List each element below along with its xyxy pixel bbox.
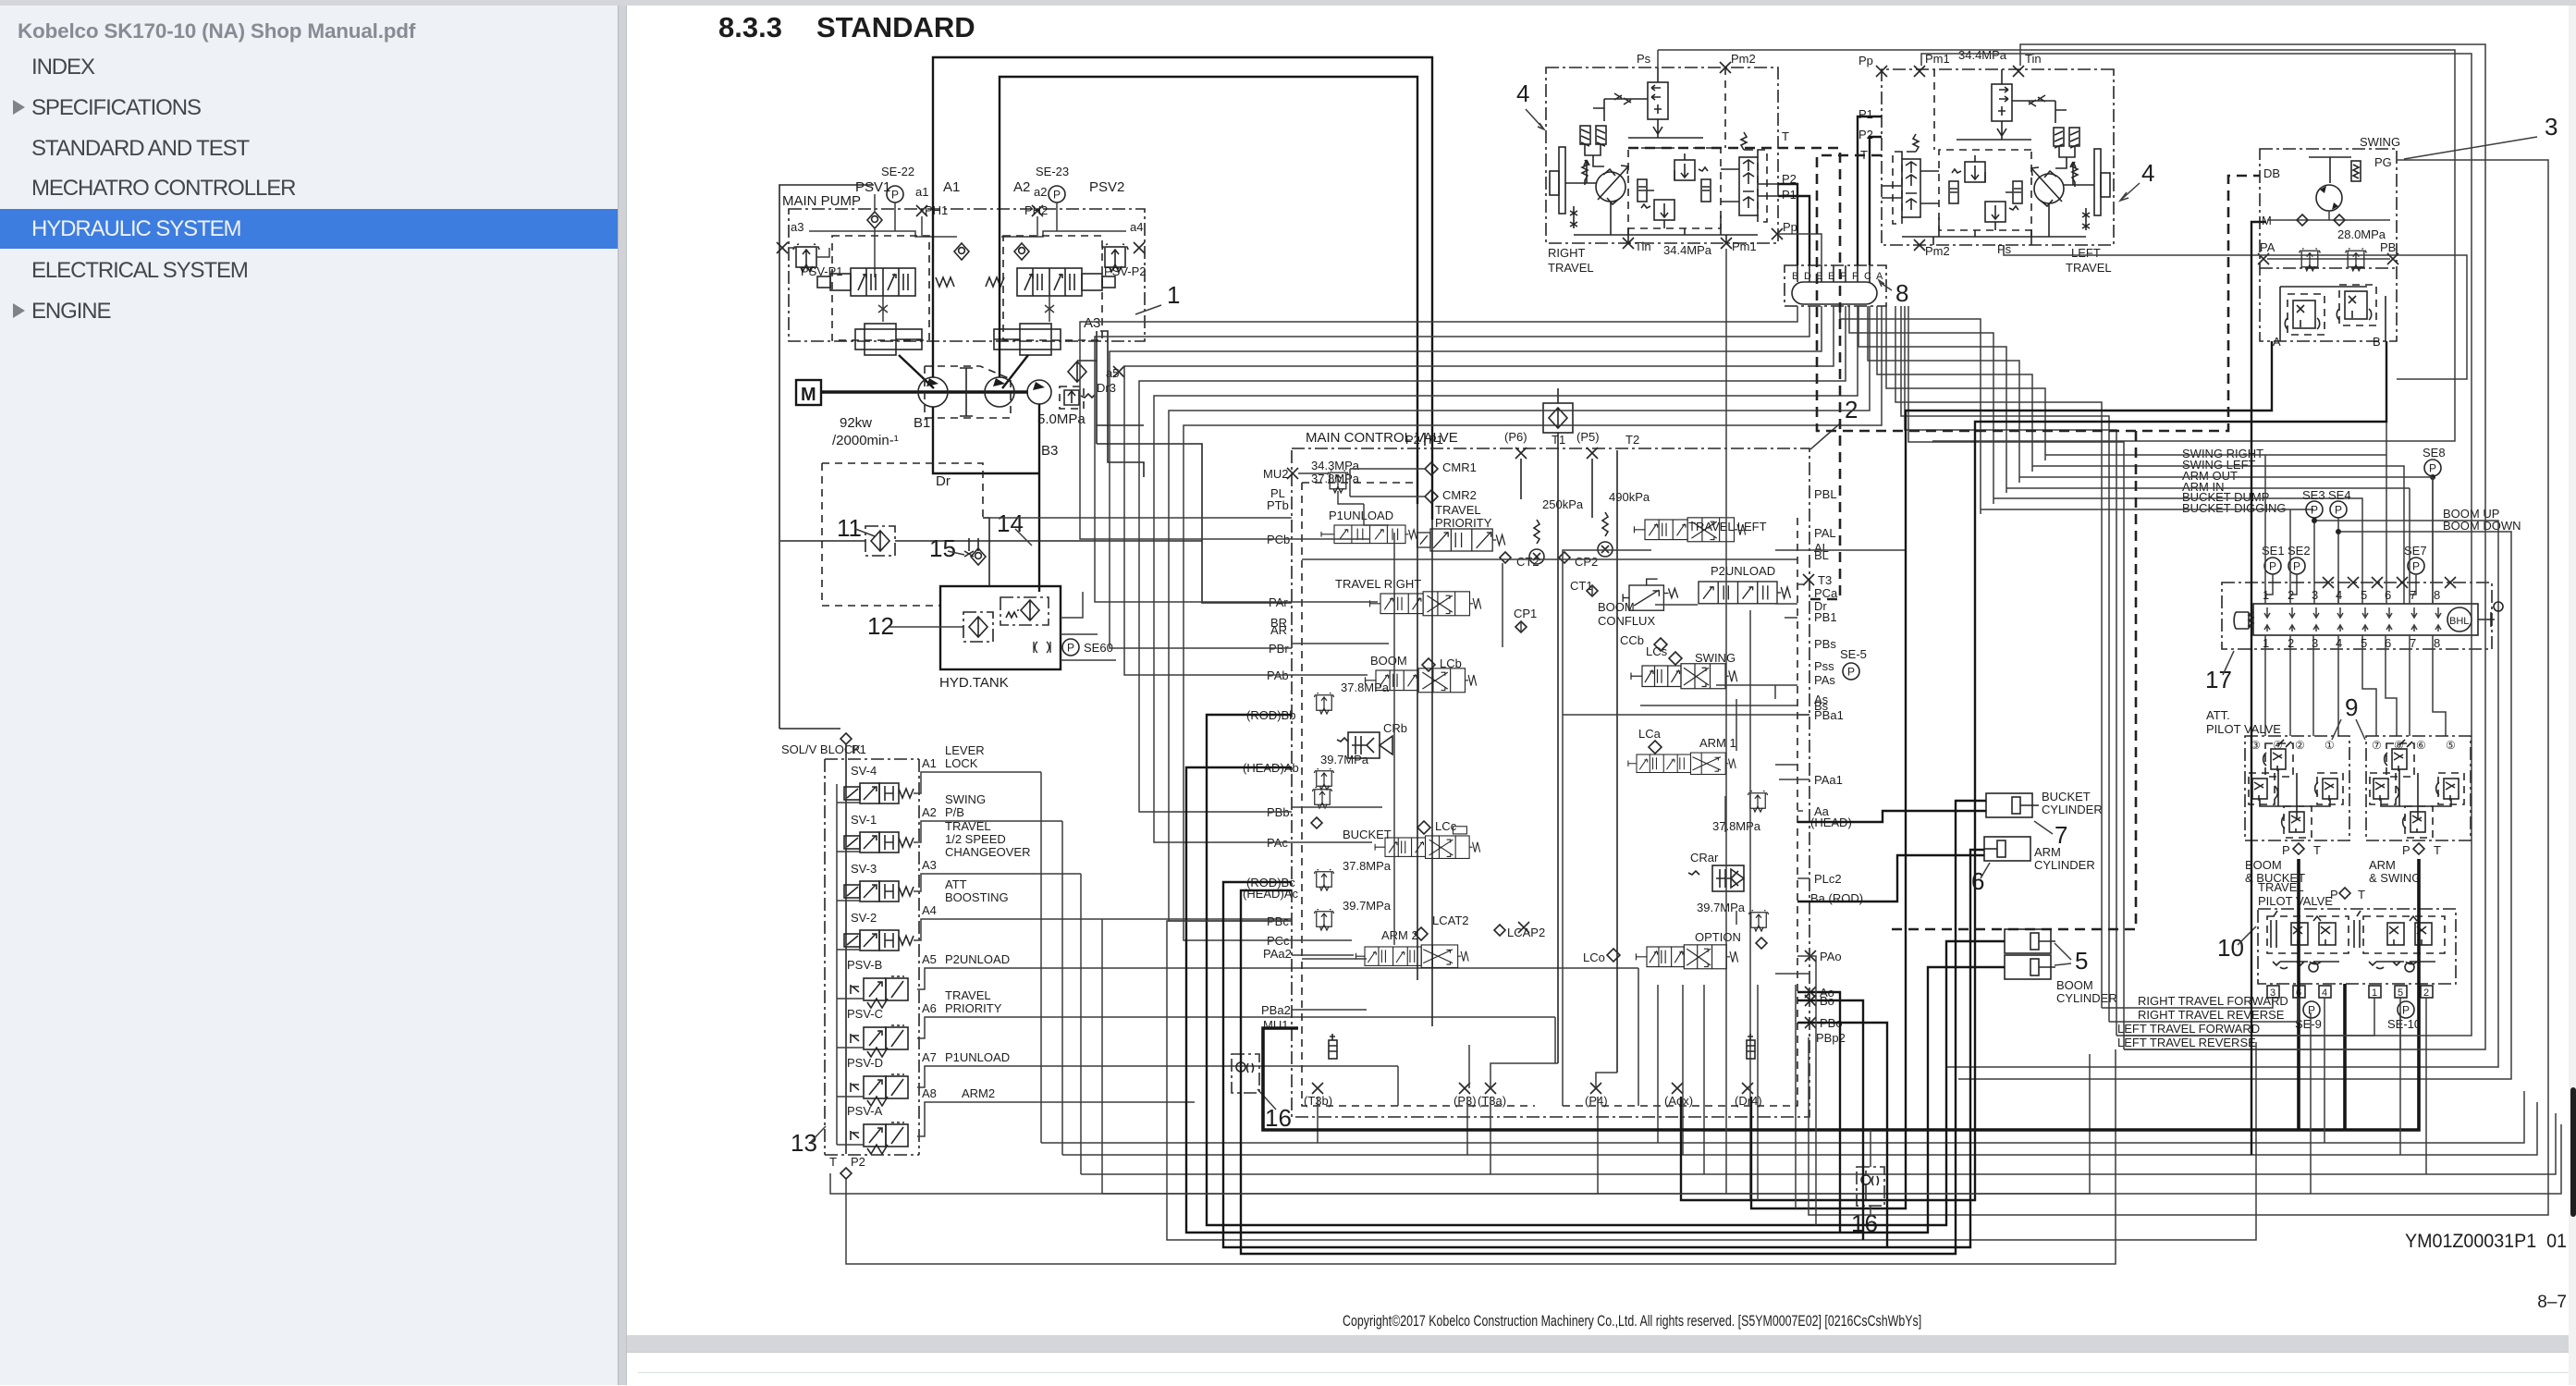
svg-text:PTb: PTb <box>1267 498 1289 512</box>
svg-text:ATT: ATT <box>945 877 967 891</box>
svg-text:4: 4 <box>2141 159 2154 187</box>
svg-text:LCAT2: LCAT2 <box>1432 914 1469 927</box>
svg-text:2: 2 <box>2423 987 2429 999</box>
svg-text:ARM 2: ARM 2 <box>1381 928 1418 942</box>
svg-text:PBs: PBs <box>1814 637 1836 651</box>
svg-text:LCAP2: LCAP2 <box>1507 926 1545 939</box>
svg-text:P1: P1 <box>1858 107 1873 121</box>
dashed T net left travel <box>1817 155 2260 929</box>
svg-text:RIGHT TRAVEL FORWARD: RIGHT TRAVEL FORWARD <box>2138 994 2288 1008</box>
svg-text:SV-1: SV-1 <box>851 813 877 827</box>
left travel motor unit (mirrored) <box>1882 69 2114 245</box>
svg-text:SV-2: SV-2 <box>851 911 877 925</box>
svg-text:SE-22: SE-22 <box>881 165 914 178</box>
svg-text:SE-23: SE-23 <box>1036 165 1069 178</box>
nest wire row 10 <box>1908 306 2124 1049</box>
MCV bottom small checks <box>1329 1034 1337 1059</box>
svg-text:PSV2: PSV2 <box>1089 179 1124 195</box>
svg-text:CYLINDER: CYLINDER <box>2034 858 2095 872</box>
check valves center <box>954 243 969 260</box>
svg-text:TRAVEL: TRAVEL <box>2258 880 2304 894</box>
svg-text:PH1: PH1 <box>925 203 948 217</box>
svg-text:T: T <box>829 1155 837 1169</box>
svg-text:28.0MPa: 28.0MPa <box>2337 227 2386 241</box>
svg-text:3: 3 <box>2545 113 2558 141</box>
swing dash-dot boundary <box>2260 149 2397 341</box>
main page <box>627 6 2576 1335</box>
tank suction to MCV <box>983 517 1292 519</box>
svg-text:4: 4 <box>2322 987 2327 999</box>
svg-text:490kPa: 490kPa <box>1609 490 1650 504</box>
svg-text:PAs: PAs <box>1814 673 1835 687</box>
svg-text:A1: A1 <box>922 756 937 770</box>
svg-text:D: D <box>1804 271 1811 282</box>
svg-text:37.8MPa: 37.8MPa <box>1341 681 1390 694</box>
solv dash-dot boundary <box>825 759 919 1155</box>
PG long wire <box>1809 160 2548 1215</box>
svg-text:PRIORITY: PRIORITY <box>945 1001 1002 1015</box>
main pump dash-dot boundary <box>789 209 1145 341</box>
shuttle spring left <box>2234 612 2253 629</box>
swing lower makeup valves <box>2280 285 2386 341</box>
svg-text:P: P <box>2330 888 2338 902</box>
svg-text:PAa1: PAa1 <box>1814 773 1843 787</box>
shuttle dash-dot boundary <box>2222 583 2492 649</box>
svg-text:CT1: CT1 <box>1570 579 1593 593</box>
svg-text:STANDARD: STANDARD <box>816 11 975 43</box>
tank drain bus <box>1097 331 1144 477</box>
svg-text:6: 6 <box>2385 636 2391 650</box>
svg-text:PB1: PB1 <box>1814 610 1837 624</box>
svg-text:PBL: PBL <box>1814 487 1837 501</box>
svg-text:1: 1 <box>1167 281 1180 309</box>
svg-text:8–7: 8–7 <box>2537 1293 2567 1312</box>
fan wire PBr <box>1110 306 1822 648</box>
svg-text:15: 15 <box>929 534 956 562</box>
Pm1 long drop <box>1725 249 1727 1194</box>
svg-text:P: P <box>2402 843 2410 857</box>
check CMR1 <box>1425 462 1438 475</box>
swing M long line <box>2251 222 2266 1155</box>
svg-text:P2UNLOAD: P2UNLOAD <box>945 952 1010 966</box>
svg-text:4: 4 <box>1516 80 1529 107</box>
svg-text:SWING: SWING <box>2360 135 2400 149</box>
port Ao link <box>1797 992 1840 1233</box>
MCV inner dash boundary right <box>1563 518 1797 1106</box>
svg-text:34.3MPa: 34.3MPa <box>1311 459 1360 472</box>
svg-text:MU2: MU2 <box>1263 467 1288 481</box>
svg-text:SOL/V BLOCK: SOL/V BLOCK <box>781 742 861 756</box>
bottom row Aox swing B <box>1681 341 2386 1200</box>
swing M line checks <box>2267 211 2390 220</box>
drop row5 <box>1757 985 1759 1200</box>
travel left P1 riser <box>1858 117 1882 265</box>
svg-text:4: 4 <box>2336 636 2342 650</box>
svg-text:B1: B1 <box>914 415 930 431</box>
svg-text:M: M <box>801 385 816 405</box>
svg-text:5: 5 <box>2361 636 2367 650</box>
fan wire PAb <box>1124 306 1834 675</box>
swing handle <box>2309 157 2361 183</box>
bottom row P4 <box>1102 919 2561 1194</box>
att pilot valve arm&swing <box>2366 736 2471 840</box>
P1 drop wire <box>845 744 847 1154</box>
solv T drain long wire <box>830 1054 2090 1194</box>
svg-text:6: 6 <box>2385 588 2391 602</box>
pilot label wires <box>1981 455 2433 604</box>
svg-text:PAL: PAL <box>1814 526 1836 540</box>
svg-text:5: 5 <box>2398 987 2403 999</box>
svg-text:39.7MPa: 39.7MPa <box>1343 899 1392 913</box>
inlet filter box <box>1543 403 1573 433</box>
svg-text:Pm1: Pm1 <box>1732 239 1757 253</box>
pilot P thick riser boom bucket <box>2297 859 2300 1130</box>
svg-text:T: T <box>1782 129 1789 143</box>
drop row2 <box>1682 985 1684 1155</box>
svg-text:250kPa: 250kPa <box>1542 497 1584 511</box>
svg-text:B3: B3 <box>1041 443 1058 459</box>
left travel forward wire <box>2116 998 2374 1036</box>
svg-text:LEVER: LEVER <box>945 743 985 757</box>
svg-text:5: 5 <box>2361 588 2367 602</box>
svg-text:5: 5 <box>2075 947 2088 975</box>
svg-text:a4: a4 <box>1130 220 1143 234</box>
dashed T net right travel <box>1628 148 1840 599</box>
svg-text:T3: T3 <box>1818 573 1832 587</box>
svg-text:(P6): (P6) <box>1504 430 1527 444</box>
travel top line Ps <box>1658 50 2455 441</box>
svg-text:AR: AR <box>1270 623 1287 637</box>
svg-text:ARM2: ARM2 <box>962 1086 995 1100</box>
svg-text:TRAVEL: TRAVEL <box>2066 261 2112 275</box>
svg-text:A6: A6 <box>922 1001 937 1015</box>
bucket cylinder <box>1986 793 2039 817</box>
svg-text:12: 12 <box>867 612 894 640</box>
bucket pilot row <box>1167 921 2256 1240</box>
svg-text:LEFT: LEFT <box>2071 246 2101 260</box>
fan wire PBc <box>1169 306 1870 921</box>
item 16 right check <box>1857 1167 1884 1206</box>
boom head thick line <box>1186 767 2005 1233</box>
svg-text:PSV-A: PSV-A <box>847 1104 883 1118</box>
suction line into MCV <box>983 518 989 586</box>
svg-text:Pm2: Pm2 <box>1731 52 1756 66</box>
swing motor <box>2316 185 2342 211</box>
svg-text:P1: P1 <box>1429 433 1443 447</box>
travel right P1 riser <box>1778 196 1809 265</box>
drain thick line B3 <box>1038 404 1040 592</box>
svg-text:37.8MPa: 37.8MPa <box>1343 859 1392 873</box>
left travel Pm1 top run <box>1921 54 2472 1036</box>
svg-text:3: 3 <box>2312 636 2318 650</box>
travel pilot port boxes <box>2267 986 2433 998</box>
pilot supply wire <box>779 728 840 730</box>
right travel motor unit <box>1546 67 1778 243</box>
svg-text:17: 17 <box>2205 666 2232 693</box>
svg-text:A2: A2 <box>1013 179 1030 195</box>
svg-text:TRAVEL RIGHT: TRAVEL RIGHT <box>1335 577 1421 591</box>
svg-text:PSV1: PSV1 <box>855 179 890 195</box>
servo link diagonal left <box>899 355 934 388</box>
main pump outer frame <box>779 185 874 729</box>
svg-text:(HEAD)Ac: (HEAD)Ac <box>1243 887 1298 901</box>
SE60 sensor <box>1034 642 1050 653</box>
motor box M <box>796 380 821 405</box>
connector block 8 <box>1785 265 1886 306</box>
svg-text:④: ④ <box>2273 739 2283 752</box>
MCV trunk stubs right <box>1736 550 1905 1023</box>
hyd tank box <box>940 586 1061 669</box>
svg-text:DB: DB <box>2263 166 2280 180</box>
swing relief pair <box>2267 258 2390 260</box>
svg-text:A4: A4 <box>922 903 937 917</box>
svg-text:Dr: Dr <box>936 473 951 489</box>
nest row 4 <box>1868 306 2019 483</box>
svg-text:PG: PG <box>2374 155 2392 169</box>
svg-text:PSV-D: PSV-D <box>847 1056 883 1070</box>
svg-text:⑥: ⑥ <box>2416 739 2426 752</box>
svg-text:Pss: Pss <box>1814 659 1834 673</box>
solv internal feed bus <box>837 784 864 1145</box>
svg-text:PSV-B: PSV-B <box>847 958 882 972</box>
svg-text:a2: a2 <box>1034 185 1047 199</box>
att pilot valve boom&bucket <box>2245 736 2349 840</box>
shuttle pin bottom drops <box>2265 635 2446 736</box>
boom head relief pair <box>1313 788 1332 809</box>
svg-text:PILOT VALVE: PILOT VALVE <box>2258 894 2333 908</box>
regulator dashed box left <box>832 236 929 340</box>
svg-text:A3: A3 <box>1084 315 1100 331</box>
svg-text:1: 1 <box>2372 987 2377 999</box>
boom rod thick line <box>1207 715 2005 1225</box>
servo piston right <box>994 324 1061 355</box>
svg-text:E: E <box>1828 271 1834 282</box>
drain thick line B1 <box>933 407 1039 473</box>
svg-text:CYLINDER: CYLINDER <box>2056 991 2117 1005</box>
svg-text:A3: A3 <box>922 858 937 872</box>
svg-text:P/B: P/B <box>945 805 964 819</box>
svg-text:TRAVEL: TRAVEL <box>1548 261 1594 275</box>
P1 P2 internal drops <box>1417 450 1432 520</box>
svg-text:4: 4 <box>2336 588 2342 602</box>
sidebar <box>0 6 618 1385</box>
A6 drop <box>1554 1017 1556 1063</box>
svg-text:CRar: CRar <box>1690 851 1719 865</box>
arm cylinder thick line <box>1223 850 1984 1247</box>
shuttle lever <box>2478 612 2495 627</box>
svg-text:10: 10 <box>2217 934 2244 962</box>
svg-text:OPTION: OPTION <box>1695 930 1741 944</box>
svg-text:SV-4: SV-4 <box>851 764 877 778</box>
svg-text:A2: A2 <box>922 805 937 819</box>
svg-text:PSV-C: PSV-C <box>847 1007 883 1021</box>
shaft coupling mark <box>960 368 973 416</box>
svg-text:ARM: ARM <box>2369 858 2396 872</box>
wire into filter 11 <box>780 540 1202 542</box>
svg-text:CHANGEOVER: CHANGEOVER <box>945 845 1030 859</box>
svg-text:RIGHT: RIGHT <box>1548 246 1586 260</box>
throttle X below right spool <box>1045 296 1054 322</box>
svg-text:16: 16 <box>1265 1104 1292 1132</box>
page separator <box>618 6 627 1385</box>
travel pilot boundary <box>2258 909 2456 984</box>
svg-text:TRAVEL: TRAVEL <box>945 819 991 833</box>
svg-text:BUCKET: BUCKET <box>1343 828 1392 841</box>
svg-text:SE-5: SE-5 <box>1840 647 1867 661</box>
item 16 left check <box>1232 1054 1259 1093</box>
svg-text:a3: a3 <box>791 220 803 234</box>
right travel forward wire <box>2102 998 2273 1008</box>
left travel reverse wire <box>2124 998 2400 1049</box>
top strip <box>0 0 2576 6</box>
svg-text:SE8: SE8 <box>2423 446 2446 460</box>
svg-text:(P4): (P4) <box>1585 1094 1608 1108</box>
svg-text:Ba (ROD): Ba (ROD) <box>1810 891 1863 905</box>
svg-text:P1: P1 <box>852 742 866 756</box>
svg-text:B: B <box>1792 271 1798 282</box>
svg-text:CRb: CRb <box>1383 721 1407 735</box>
nest row 1 <box>1840 306 1981 514</box>
shuttle arrows <box>2264 607 2441 632</box>
bottom row T3a <box>1081 874 2556 1174</box>
svg-text:T2: T2 <box>1625 433 1639 447</box>
svg-text:a1: a1 <box>915 185 928 199</box>
svg-text:& SWING: & SWING <box>2369 871 2421 885</box>
travel right Pp riser <box>1778 234 1822 265</box>
BHL circle <box>2447 607 2472 632</box>
fan wire PCc <box>1184 306 1882 940</box>
svg-text:13: 13 <box>791 1129 817 1157</box>
fan wire PAr <box>1095 306 1809 602</box>
svg-text:RIGHT TRAVEL REVERSE: RIGHT TRAVEL REVERSE <box>2138 1008 2285 1022</box>
svg-text:2: 2 <box>2288 636 2294 650</box>
svg-text:1: 1 <box>2263 636 2269 650</box>
bottom row T3b <box>1041 772 2524 1143</box>
svg-text:39.7MPa: 39.7MPa <box>1320 753 1369 767</box>
servo link diagonal right <box>1002 355 1028 388</box>
pump dashed enclosure <box>925 366 1011 418</box>
svg-text:Tin: Tin <box>1635 239 1651 253</box>
sensor SE-9 <box>2303 1001 2320 1018</box>
svg-text:CCb: CCb <box>1620 633 1644 647</box>
svg-text:SE-10: SE-10 <box>2387 1017 2421 1031</box>
right travel reverse wire <box>2109 998 2299 1022</box>
tank outlet right wires <box>1061 592 1116 660</box>
nest row 3 <box>1858 306 2006 493</box>
svg-text:⑤: ⑤ <box>2446 739 2456 752</box>
pump P2 circle <box>985 377 1014 407</box>
nest row 2 <box>1849 306 1993 504</box>
svg-text:7: 7 <box>2410 588 2416 602</box>
svg-text:SE3: SE3 <box>2302 488 2325 502</box>
MCV outer dash-dot boundary <box>1292 448 1809 1117</box>
drop row6 <box>1795 985 1797 1208</box>
bottom row P3 <box>1062 821 2537 1155</box>
svg-text:SV-3: SV-3 <box>851 862 877 876</box>
svg-text:(Aox): (Aox) <box>1664 1094 1693 1108</box>
travel left P2 riser <box>1870 137 1882 265</box>
nest wire row 9 <box>1905 306 2116 1036</box>
svg-text:C: C <box>1864 271 1871 282</box>
svg-text:⑧: ⑧ <box>2394 739 2404 752</box>
travel right P2 riser <box>1778 184 1797 265</box>
svg-text:ATT.: ATT. <box>2206 708 2230 722</box>
nest wire row 7 <box>1895 306 2102 1008</box>
travel pilot internals <box>2267 911 2445 972</box>
boom cylinders <box>2005 929 2055 953</box>
svg-text:PBa1: PBa1 <box>1814 708 1844 722</box>
svg-text:8: 8 <box>1895 279 1908 307</box>
svg-text:A5: A5 <box>922 952 937 966</box>
svg-text:2: 2 <box>1845 396 1858 423</box>
travel top line Pm2 <box>2004 245 2467 379</box>
svg-text:3: 3 <box>2312 588 2318 602</box>
svg-text:8.3.3: 8.3.3 <box>718 11 782 43</box>
drain dashed boundary <box>822 463 983 606</box>
svg-text:8: 8 <box>2434 636 2440 650</box>
arm cylinder rod line <box>1797 855 1984 902</box>
MCV internal port stubs <box>1292 539 1389 955</box>
svg-text:1: 1 <box>2263 588 2269 602</box>
svg-text:T: T <box>2358 888 2365 902</box>
X at P6 <box>1515 448 1527 459</box>
svg-text:SE4: SE4 <box>2328 488 2351 502</box>
port PAo link <box>1797 956 1816 1225</box>
svg-text:CMR2: CMR2 <box>1442 488 1477 502</box>
svg-text:⑦: ⑦ <box>2372 739 2382 752</box>
drop row3 <box>1703 985 1705 1174</box>
svg-text:TRAVEL LEFT: TRAVEL LEFT <box>1688 520 1767 534</box>
svg-text:P: P <box>2282 843 2290 857</box>
svg-text:BOOM: BOOM <box>2056 978 2093 992</box>
gear pump P3 circle <box>1027 380 1051 404</box>
svg-text:TRAVEL: TRAVEL <box>1435 503 1481 517</box>
A3 to MCV wire <box>1097 444 1292 603</box>
svg-text:HYD.TANK: HYD.TANK <box>939 675 1009 691</box>
svg-text:F: F <box>1852 271 1858 282</box>
check diamond P1 <box>840 733 852 744</box>
svg-text:CMR1: CMR1 <box>1442 460 1477 474</box>
svg-text:Pp: Pp <box>1783 220 1797 234</box>
regulator dashed box right <box>1003 236 1102 340</box>
svg-text:MAIN PUMP: MAIN PUMP <box>782 193 861 209</box>
svg-text:P1UNLOAD: P1UNLOAD <box>1329 509 1393 522</box>
A5 drop <box>1638 968 1639 1106</box>
svg-text:P2: P2 <box>1858 128 1873 141</box>
svg-text:PILOT VALVE: PILOT VALVE <box>2206 722 2281 736</box>
svg-text:Pp: Pp <box>1858 54 1873 67</box>
arm cylinder <box>1984 837 2030 861</box>
P2 check diamond <box>840 1168 852 1179</box>
svg-text:T: T <box>2313 843 2321 857</box>
check valve PSV1 line <box>867 212 882 228</box>
svg-text:CONFLUX: CONFLUX <box>1598 614 1655 628</box>
svg-text:BHL: BHL <box>2449 616 2469 627</box>
svg-text:Ps: Ps <box>1637 52 1651 66</box>
svg-text:Dr3: Dr3 <box>1097 381 1116 395</box>
svg-text:34.4MPa: 34.4MPa <box>1663 243 1712 257</box>
MCV internal verticals <box>1292 504 1797 1106</box>
svg-text:1/2 SPEED: 1/2 SPEED <box>945 832 1006 846</box>
svg-text:92kw: 92kw <box>840 415 872 431</box>
svg-text:P2UNLOAD: P2UNLOAD <box>1711 564 1775 578</box>
svg-text:SWING: SWING <box>945 792 986 806</box>
pilot P thick riser travel <box>2343 984 2347 1130</box>
svg-text:B: B <box>2373 335 2381 349</box>
svg-text:Ps: Ps <box>1997 242 2012 256</box>
bucket cylinder thick line <box>1241 801 1986 1254</box>
check CMR2 <box>1425 490 1438 503</box>
